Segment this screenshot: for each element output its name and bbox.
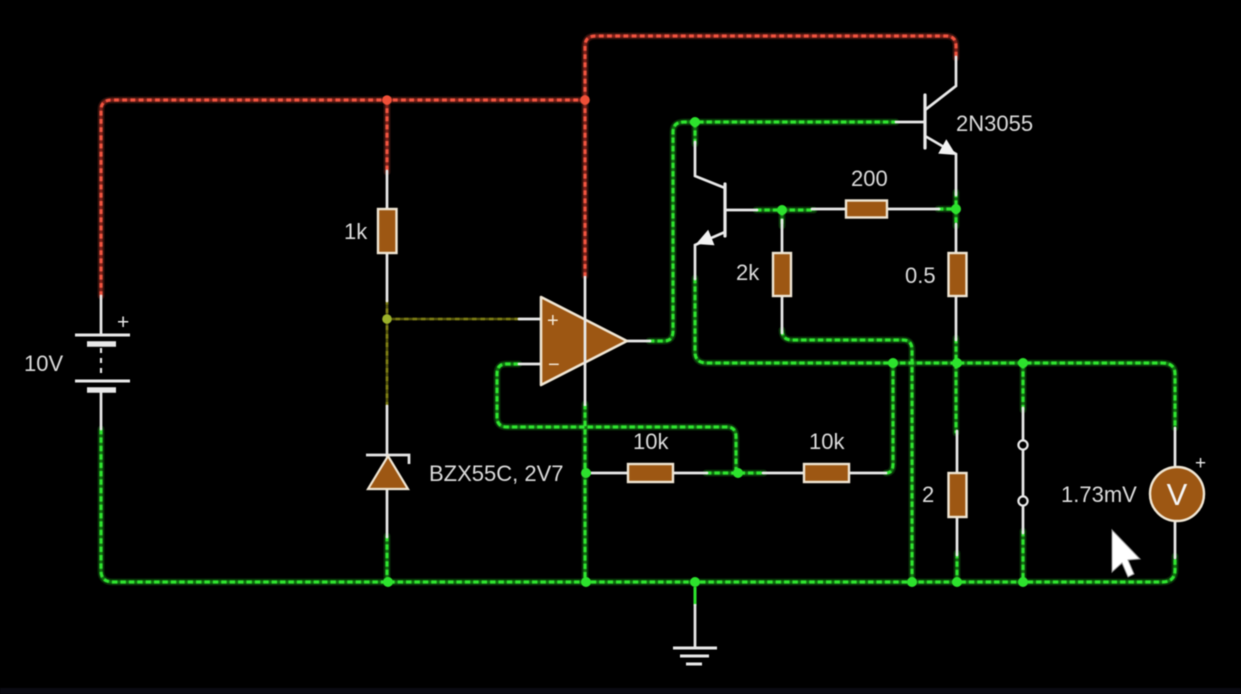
svg-text:−: −: [548, 354, 560, 376]
wire switch leads: [1022, 408, 1025, 533]
wire 10k left leads: [588, 472, 707, 475]
wire red glow layer: [101, 36, 956, 296]
wire olive reference node: [387, 300, 522, 406]
mouse cursor: [1112, 530, 1140, 577]
transistor Q1 emitter arrow: [696, 230, 715, 245]
svg-text:0.5: 0.5: [905, 263, 936, 288]
svg-text:BZX55C, 2V7: BZX55C, 2V7: [429, 461, 564, 486]
wire switch leads: [1020, 363, 1027, 582]
node ground rail / 2k wire: [907, 577, 917, 587]
wire base node to 200: [756, 210, 814, 226]
transistor Q2 2N3055: [896, 57, 956, 195]
op-amp U1: [541, 297, 627, 385]
node output rail / switch top: [1018, 358, 1028, 368]
wire ground rail bottom: [101, 429, 1175, 582]
transistor Q2 emitter arrow: [938, 139, 956, 155]
svg-text:1k: 1k: [344, 219, 368, 244]
wire 10k right leads: [763, 472, 886, 475]
wire 2k bottom to ground: [782, 330, 912, 582]
wire 200 to emitter column: [938, 192, 956, 226]
resistor R4 0.5: [949, 253, 967, 296]
transistor Q1 driver (mirrored NPN): [695, 142, 757, 279]
svg-text:V: V: [1167, 477, 1188, 512]
wire op-amp inverting input: [497, 364, 736, 473]
wire op-amp supply column (over triangle): [584, 276, 587, 406]
resistor R1 1k: [378, 209, 397, 253]
white leads: [101, 171, 1175, 558]
node ground rail / switch bottom: [1018, 577, 1028, 587]
svg-text:+: +: [547, 310, 559, 332]
svg-text:10k: 10k: [633, 429, 669, 454]
node ground rail / zener: [383, 577, 393, 587]
node ground rail / ground symbol: [690, 577, 700, 587]
wire 10k junction: [706, 470, 764, 477]
wire zener leads: [386, 406, 389, 537]
node Q1 base / 2k / 200: [777, 205, 787, 215]
resistor R3 200: [846, 201, 887, 218]
wire op-amp input stubs: [519, 319, 540, 364]
wire red bright dashes: [101, 36, 956, 296]
wire battery top lead: [100, 296, 103, 334]
node Q1 collector / Q2 base: [690, 117, 700, 127]
wire op-amp output to 2N3055 base: [649, 122, 896, 341]
switch S1 (closed): [1018, 440, 1027, 505]
resistor R5 10k left: [628, 464, 673, 482]
resistor R2 2k: [773, 253, 791, 296]
wire 200 leads: [812, 208, 939, 211]
bottom video strip: [0, 688, 1241, 694]
resistor R7 2: [949, 473, 967, 517]
wire red base layer: [101, 36, 956, 296]
battery B1 10V: [75, 335, 130, 390]
wire 10k right to output rail: [886, 363, 893, 473]
wire green base layer: [101, 122, 1175, 582]
wire battery bottom lead: [100, 392, 103, 429]
wire op-amp V- to ground: [582, 404, 589, 582]
node 1k top junction (+10V rail): [382, 95, 392, 105]
voltmeter M1: [1150, 467, 1204, 521]
wire op-amp output stub: [627, 340, 650, 343]
node output rail / 10k right: [888, 358, 898, 368]
wire zener to ground: [384, 536, 391, 582]
node ground rail / 2 ohm bottom: [952, 577, 962, 587]
svg-text:2k: 2k: [736, 260, 760, 285]
node zener reference (op-amp + input): [382, 314, 392, 324]
node output rail / 0.5 bottom: [952, 358, 962, 368]
wire green glow layer: [101, 122, 1175, 582]
node 10k-10k feedback tap: [733, 468, 743, 478]
wire 0.5 leads: [955, 224, 958, 340]
wire upper rail to 2N3055 collector: [585, 36, 956, 100]
svg-text:+: +: [1195, 453, 1206, 474]
resistor R6 10k right: [804, 464, 849, 482]
node 10k left / op-amp V- column: [581, 468, 591, 478]
wire 2k leads: [781, 220, 784, 333]
svg-text:10V: 10V: [24, 351, 63, 376]
svg-text:2: 2: [922, 482, 934, 507]
zener diode D1: [366, 455, 409, 489]
svg-text:+: +: [117, 311, 129, 334]
node ground rail / op-amp V- column: [581, 577, 591, 587]
wire to 1k top: [384, 100, 391, 172]
node op-amp V+ junction (+10V rail): [580, 95, 590, 105]
svg-text:10k: 10k: [809, 429, 845, 454]
wire 2 leads: [956, 431, 959, 555]
svg-text:2N3055: 2N3055: [956, 111, 1033, 136]
svg-text:1.73mV: 1.73mV: [1061, 482, 1137, 507]
wire 0.5 bottom / 2 top: [956, 338, 957, 582]
node Q2 emitter / 200 right: [951, 204, 961, 214]
wire to op-amp V+: [582, 100, 589, 276]
svg-text:200: 200: [851, 166, 888, 191]
wire driver emitter to output rail: [695, 278, 1175, 428]
wire 1k leads: [386, 171, 389, 301]
ground: [673, 587, 717, 664]
wire battery+ top rail: [101, 100, 585, 296]
wire green bright dashes: [101, 122, 1175, 582]
wire driver collector stub: [692, 122, 699, 144]
wire voltmeter leads: [1174, 428, 1177, 558]
